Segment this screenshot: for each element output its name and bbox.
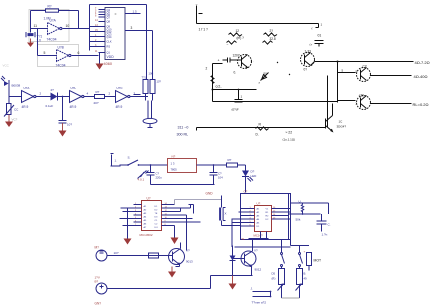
svg-text:6: 6 bbox=[78, 51, 80, 55]
svg-text:Q8: Q8 bbox=[107, 20, 111, 24]
svg-text:U?: U? bbox=[147, 197, 151, 201]
svg-text:GN?: GN? bbox=[95, 302, 102, 306]
svg-text:C?: C? bbox=[244, 190, 248, 194]
svg-text:49: 49 bbox=[304, 277, 308, 281]
svg-text:2: 2 bbox=[206, 67, 208, 71]
svg-text:=: = bbox=[115, 13, 117, 17]
svg-text:+: + bbox=[304, 250, 306, 254]
svg-text:4.0.1: 4.0.1 bbox=[138, 178, 145, 182]
svg-text:R?: R? bbox=[48, 5, 52, 9]
svg-text:4R.9: 4R.9 bbox=[116, 105, 123, 109]
svg-text:RS: RS bbox=[107, 45, 111, 49]
svg-text:GND: GND bbox=[206, 192, 214, 196]
svg-text:CLK: CLK bbox=[107, 40, 112, 44]
svg-text:10H: 10H bbox=[149, 72, 154, 76]
svg-text:X: X bbox=[225, 212, 227, 216]
svg-text:50: 50 bbox=[264, 72, 268, 76]
svg-text:B?: B? bbox=[95, 280, 99, 284]
svg-text:4Ω-40Ω: 4Ω-40Ω bbox=[414, 74, 428, 79]
svg-text:120C: 120C bbox=[233, 54, 241, 58]
svg-text:T?1: T?1 bbox=[142, 76, 147, 80]
svg-text:B0038: B0038 bbox=[12, 84, 21, 88]
svg-text:01: 01 bbox=[318, 34, 322, 38]
svg-text:V?: V? bbox=[254, 249, 258, 253]
svg-text:4R.9: 4R.9 bbox=[70, 105, 77, 109]
svg-text:1-33: 1-33 bbox=[305, 50, 312, 54]
svg-text:0.1uF: 0.1uF bbox=[46, 104, 54, 108]
svg-text:0?: 0? bbox=[304, 68, 308, 72]
svg-text:+: + bbox=[218, 59, 220, 63]
svg-text:20?: 20? bbox=[94, 101, 99, 105]
svg-text:V?: V? bbox=[186, 249, 190, 253]
svg-text:220u: 220u bbox=[156, 176, 163, 180]
svg-text:2?: 2? bbox=[51, 88, 55, 92]
svg-text:1 3: 1 3 bbox=[171, 162, 175, 166]
svg-text:U?A: U?A bbox=[50, 19, 57, 23]
svg-text:10: 10 bbox=[66, 24, 70, 28]
svg-text:≈ 22: ≈ 22 bbox=[286, 131, 293, 135]
svg-text:U?B: U?B bbox=[58, 46, 64, 50]
svg-text:+30: +30 bbox=[359, 94, 365, 98]
svg-text:1.5: 1.5 bbox=[133, 10, 138, 14]
svg-text:Q14: Q14 bbox=[107, 35, 112, 39]
svg-text:300 RL: 300 RL bbox=[177, 133, 189, 137]
svg-text:~: ~ bbox=[196, 3, 198, 7]
svg-text:0.: 0. bbox=[234, 71, 237, 75]
svg-text:VDD: VDD bbox=[107, 55, 115, 59]
svg-text:11: 11 bbox=[34, 24, 38, 28]
svg-text:MC14?: MC14? bbox=[254, 234, 263, 238]
svg-text:4Ω-7.2Ω: 4Ω-7.2Ω bbox=[415, 60, 430, 65]
svg-text:10?: 10? bbox=[114, 251, 119, 255]
svg-text:5: 5 bbox=[44, 51, 46, 55]
svg-text:9013: 9013 bbox=[186, 260, 193, 264]
svg-text:LED: LED bbox=[251, 174, 258, 178]
svg-text:cc1.: cc1. bbox=[216, 85, 222, 89]
svg-text:D5: D5 bbox=[272, 272, 276, 276]
svg-text:4060: 4060 bbox=[104, 62, 112, 66]
svg-text:VCC: VCC bbox=[3, 64, 10, 68]
svg-text:1 .: 1 . bbox=[251, 59, 255, 63]
svg-text:U?C: U?C bbox=[117, 86, 124, 90]
svg-text:D?: D? bbox=[251, 170, 255, 174]
svg-text:RL=0.2Ω: RL=0.2Ω bbox=[413, 102, 429, 107]
svg-text:R?: R? bbox=[96, 90, 100, 94]
svg-text:U?L: U?L bbox=[71, 86, 77, 90]
svg-text:3DG4?: 3DG4? bbox=[337, 125, 347, 129]
svg-text:M?: M? bbox=[95, 246, 100, 250]
svg-text:1 f 1 ?: 1 f 1 ? bbox=[199, 28, 209, 32]
svg-text:2?: 2? bbox=[270, 29, 274, 33]
svg-text:D.: D. bbox=[256, 133, 259, 137]
svg-text:4R.9: 4R.9 bbox=[22, 105, 29, 109]
svg-text:9012: 9012 bbox=[255, 268, 262, 272]
svg-text:(m) ?: (m) ? bbox=[237, 36, 245, 40]
svg-text:B.: B. bbox=[304, 272, 307, 276]
svg-text:7805: 7805 bbox=[171, 168, 178, 172]
svg-text:J.: J. bbox=[251, 287, 254, 291]
svg-text:DO: DO bbox=[155, 227, 159, 229]
svg-text:Q1: Q1 bbox=[107, 51, 111, 55]
svg-text:U?: U? bbox=[257, 202, 261, 206]
svg-text:N?: N? bbox=[172, 155, 176, 159]
svg-text:12: 12 bbox=[236, 29, 240, 33]
svg-text:(R): (R) bbox=[272, 277, 276, 281]
svg-text:VC?: VC? bbox=[12, 118, 18, 122]
svg-text:1.: 1. bbox=[115, 159, 118, 163]
svg-text:10?: 10? bbox=[67, 123, 72, 127]
svg-text:74C04: 74C04 bbox=[47, 38, 57, 42]
svg-text:MOT: MOT bbox=[314, 259, 322, 263]
svg-text:(1u.1.1Ω): (1u.1.1Ω) bbox=[283, 138, 296, 142]
svg-text:(+: (+ bbox=[310, 43, 313, 47]
svg-text:MC14502: MC14502 bbox=[140, 233, 153, 237]
svg-text:104: 104 bbox=[218, 176, 223, 180]
svg-text:3: 3 bbox=[131, 26, 133, 30]
svg-text:R?: R? bbox=[228, 158, 232, 162]
svg-text:311 ~0: 311 ~0 bbox=[178, 126, 189, 130]
svg-text:T?mer a?2: T?mer a?2 bbox=[252, 301, 267, 305]
svg-text:Q7: Q7 bbox=[107, 16, 111, 20]
svg-text:U?A: U?A bbox=[24, 86, 30, 90]
svg-text:C.: C. bbox=[328, 223, 331, 227]
svg-text:74C04: 74C04 bbox=[56, 64, 66, 68]
svg-text:1.?n: 1.?n bbox=[322, 233, 328, 237]
svg-text:10?: 10? bbox=[157, 80, 162, 84]
svg-text:(0?)F: (0?)F bbox=[232, 108, 239, 112]
svg-text:SL.: SL. bbox=[242, 237, 246, 241]
svg-text:~: ~ bbox=[227, 43, 229, 47]
svg-text:S.: S. bbox=[128, 156, 131, 160]
svg-text:50k: 50k bbox=[296, 218, 301, 222]
